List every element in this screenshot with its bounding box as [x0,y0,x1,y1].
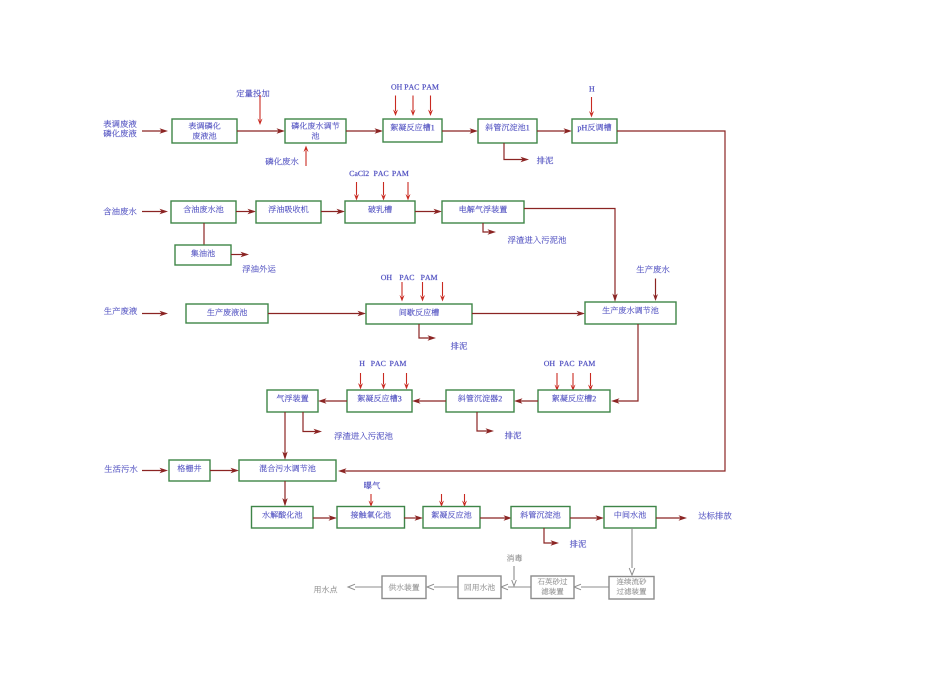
label 曝气 [364,481,380,489]
dosing arrow PAM row4L [404,373,409,390]
label H row4 [360,361,365,366]
dosing arrow 絮凝反应池 1 [439,494,444,507]
label PAM row2 [392,171,408,176]
label OH row1 [391,84,402,89]
box 磷化废水调节池 [285,119,346,143]
dosing arrow PAC row4L [381,373,386,390]
box 电解气浮装置 [442,201,524,223]
wire 絮凝反应池 to 斜管沉淀池 [480,515,512,520]
wire 含油废水池 to 浮油吸收机 [236,209,256,214]
wire 气浮装置 to 混合污水调节池 [282,412,287,460]
label PAM row4L [390,361,406,366]
dosing arrow PAC row4R [571,373,576,391]
wire 浮油吸收机 to 破乳槽 [321,209,345,214]
wire 回用水池 to 供水装置 [427,584,458,590]
box 浮油吸收机 [256,201,321,223]
label 生产废水 [637,265,670,273]
wire 絮凝反应槽3 to 气浮装置 [318,398,347,403]
label 定量投加 [237,89,270,97]
label 表调废液 [104,120,137,128]
wire 混合污水调节池 to 水解酸化池 [282,481,287,507]
wire 斜管沉淀池1 排泥 [504,143,529,162]
wire inflow to 含油废水池 [142,209,168,214]
box 石英砂过滤装置 [531,576,574,599]
wire 连续流砂过滤装置 to 石英砂过滤装置 [574,584,609,590]
label 浮渣进入污泥池 row4 [334,432,392,440]
label 用水点 [314,586,337,593]
box 气浮装置 [267,390,318,412]
label 排泥 row3 [451,342,467,350]
box 斜管沉淀池 [511,507,570,529]
box pH反调槽 [572,119,617,143]
dosing arrow PAM row1 [428,96,433,117]
label CaCl2 [350,171,369,176]
dosing arrow PAM row2 [406,182,411,201]
wire 含油废水池 to 集油池 [203,223,205,245]
wire 絮凝反应槽2 to 斜管沉淀器2 [514,398,538,403]
label 排泥 row6 [570,540,586,548]
dosing arrow 磷化废水 up [304,146,309,167]
label OH row3 [381,275,392,280]
box 连续流砂过滤装置 [609,577,654,600]
box 生产废水调节池 [585,302,676,324]
wire 斜管沉淀池 排泥 [544,528,559,546]
label PAC row1 [404,84,419,89]
wire 磷化废水调节池 to 絮凝反应槽1 [346,128,383,133]
box 接触氧化池 [337,507,405,529]
label 磷化废水 [265,157,298,165]
box 集油池 [175,245,231,265]
box 混合污水调节池 [239,460,336,481]
dosing arrow PAM row4R [588,373,593,391]
dosing arrow OH row1 [393,96,398,117]
label PAC row4L [371,361,386,366]
wire inflow to 生产废液池 [142,311,168,316]
wire 电解气浮装置 浮渣 [483,223,496,235]
wire 斜管沉淀器2 排泥 [477,412,494,434]
dosing arrow H row4 [358,373,363,390]
wire 斜管沉淀池 to 中间水池 [570,515,604,520]
label 生产废液 [104,307,137,315]
label 浮油外运 [243,265,276,273]
wire 间歇反应槽 排泥 [419,324,436,341]
box 斜管沉淀池1 [478,119,537,143]
box 回用水池 [458,576,501,599]
box 絮凝反应槽2 [538,390,610,412]
box 供水装置 [382,576,426,599]
label 生活污水 [105,465,138,473]
label H row1 [589,86,594,91]
box 水解酸化池 [252,507,314,529]
label 消毒 [507,554,522,561]
wire 生产废水调节池 to 絮凝反应槽2 [611,324,638,404]
label PAC row2 [374,171,389,176]
wire 斜管沉淀池1 to pH反调槽 [537,128,572,133]
box 絮凝反应池 [423,507,480,529]
dosing arrow 定量投加 [258,95,263,125]
wire inflow to 表调磷化废液池 [142,128,168,133]
dosing arrow 曝气 [369,494,374,507]
wire 斜管沉淀器2 to 絮凝反应槽3 [412,398,446,403]
dosing arrow OH row4R [555,373,560,391]
label 含油废水 [104,207,137,215]
wire 水解酸化池 to 接触氧化池 [313,515,337,520]
label PAM row4R [579,361,595,366]
label 排泥 row1 [537,156,553,164]
dosing arrow 絮凝反应池 2 [462,494,467,507]
wire 生产废液池 to 间歇反应槽 [268,311,366,316]
label 达标排放 [699,512,732,520]
box 格栅井 [169,460,210,481]
label PAM row3 [421,275,437,280]
box 中间水池 [604,507,656,529]
wire 接触氧化池 to 絮凝反应池 [404,515,423,520]
label 磷化废液 [103,129,136,137]
label OH row4R [544,361,555,366]
box 斜管沉淀器2 [446,390,514,412]
wire 集油池 浮油外运 [231,252,249,257]
wire 生产废水 inflow [653,279,658,302]
box 生产废液池 [186,304,268,323]
wire 中间水池 达标排放 [656,515,687,520]
dosing arrow OH row3 [400,282,405,302]
wire 破乳槽 to 电解气浮装置 [415,209,442,214]
wire 石英砂过滤装置 to 回用水池 [501,584,531,590]
dosing arrow CaCl2 [354,182,359,201]
wire inflow to 格栅井 [142,468,168,473]
wire 间歇反应槽 to 生产废水调节池 [472,311,585,316]
wire 供水装置 to 用水点 [348,584,382,590]
box 絮凝反应槽1 [383,119,442,142]
label 浮渣进入污泥池 row2 [508,236,566,244]
dosing arrow PAM row3 [440,282,445,302]
label PAC row3 [400,275,415,280]
wire 气浮装置 浮渣 [303,412,322,434]
label PAM row1 [422,84,438,89]
wire 中间水池 to 连续流砂过滤装置 [629,528,635,575]
wire 格栅井 to 混合污水调节池 [210,468,239,473]
box 含油废水池 [171,201,236,223]
label 排泥 row4 [505,431,521,439]
label PAC row4R [560,361,575,366]
wire pH反调槽 feedback to 混合污水调节池 [338,131,725,474]
wire 电解气浮装置 to 生产废水调节池 [524,209,618,303]
dosing arrow PAC row3 [420,282,425,302]
wire 絮凝反应槽1 to 斜管沉淀池1 [442,128,478,133]
dosing arrow PAC row2 [381,182,386,201]
wire 表调磷化废液池 to 磷化废水调节池 [237,128,285,133]
dosing arrow H row1 [589,97,594,118]
box 间歇反应槽 [366,304,472,324]
wire 消毒 arrow [512,566,517,586]
box 破乳槽 [345,201,415,223]
dosing arrow PAC row1 [411,96,416,117]
box 絮凝反应槽3 [347,390,412,412]
box 表调磷化废液池 [172,119,237,143]
